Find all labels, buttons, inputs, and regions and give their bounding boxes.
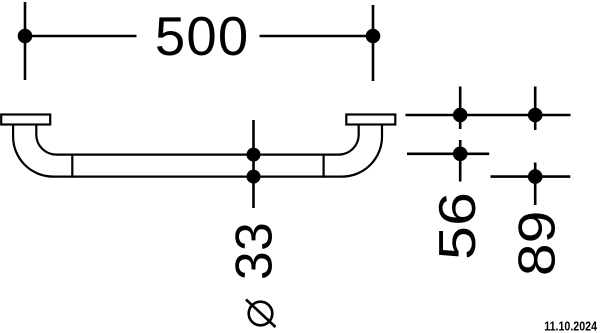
grab bar: tube outer contour [13, 124, 382, 176]
dimension 500: right extension line [372, 5, 375, 81]
svg-text:500: 500 [155, 6, 250, 67]
dimension 56: top dot [453, 108, 468, 123]
dimension ø33: vertical dimension line [252, 120, 255, 208]
dimension 500: left end dot [18, 29, 33, 44]
grab bar: left wall flange plate [1, 115, 50, 125]
dimension ø33: diameter symbol circle [249, 302, 273, 326]
dimension 56: top tick [459, 87, 462, 130]
grab bar: left tube joint line [71, 154, 73, 178]
svg-text:56: 56 [429, 192, 486, 260]
dimension ø33: bottom dot [247, 170, 261, 184]
grab bar: right wall flange plate [346, 115, 395, 125]
dimension 89: bottom tick [534, 163, 537, 206]
dimension 500: right end dot [366, 29, 381, 44]
dimension 56: bottom tick [459, 140, 462, 182]
dimension 500: left extension line [24, 2, 27, 80]
dimension 89: top tick [534, 87, 537, 131]
svg-text:33: 33 [225, 222, 283, 280]
dimension 89: bottom dot [528, 169, 543, 184]
dimension 89: top dot [528, 108, 543, 123]
svg-text:11.10.2024: 11.10.2024 [544, 318, 597, 333]
dimension 500: dimension line right segment [260, 35, 374, 38]
grab bar: tube inner contour [36, 124, 358, 154]
right dimensions: tube bottom reference line [491, 175, 571, 178]
dimension ø33: diameter symbol slash [246, 300, 276, 328]
dimension 500: dimension line left segment [25, 35, 137, 38]
right dimensions: wall reference line [406, 114, 571, 117]
dimension ø33: top dot [247, 148, 261, 162]
grab bar: right tube joint line [323, 154, 325, 178]
dimension 56: bottom dot [453, 147, 468, 162]
right dimensions: tube top reference line [407, 153, 489, 156]
svg-text:89: 89 [508, 211, 566, 276]
